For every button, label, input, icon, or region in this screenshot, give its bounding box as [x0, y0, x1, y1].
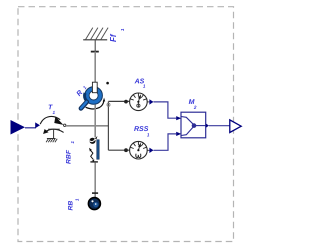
angle sensor AS1 [130, 78, 154, 110]
svg-text:2: 2 [193, 105, 197, 110]
svg-text:1: 1 [147, 132, 150, 137]
rotor R1 [76, 82, 106, 109]
fixed support Ff1 [83, 28, 125, 52]
wire [94, 105, 96, 138]
svg-text:1: 1 [75, 198, 80, 201]
svg-text:RB: RB [68, 201, 75, 211]
wire [154, 134, 177, 150]
svg-text:1: 1 [143, 84, 146, 89]
bearing friction RBF1 [66, 136, 100, 164]
svg-text:1: 1 [70, 141, 75, 144]
input connector u [11, 120, 26, 135]
wire [154, 102, 177, 118]
flange connector [107, 103, 110, 106]
body RB1 [68, 193, 101, 210]
wire [107, 101, 109, 150]
wire [94, 162, 96, 197]
node [106, 82, 109, 85]
rel speed sensor RSS1 [130, 126, 154, 159]
svg-text:1: 1 [120, 28, 125, 31]
svg-text:RBF: RBF [66, 149, 73, 164]
wire [66, 125, 108, 127]
svg-text:Ff: Ff [109, 33, 118, 42]
wire [25, 127, 36, 129]
output connector y [230, 120, 241, 133]
torque source T1 [35, 104, 66, 142]
wire [94, 40, 96, 52]
wire [108, 148, 129, 152]
svg-text:1: 1 [52, 110, 55, 115]
wire [108, 100, 129, 104]
multiplexer M2 [176, 99, 209, 138]
wire [209, 125, 230, 127]
